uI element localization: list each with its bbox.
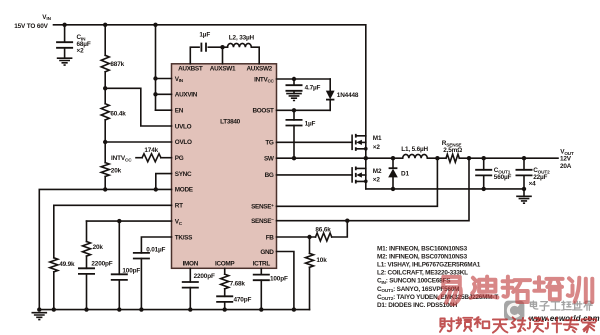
svg-text:7.68k: 7.68k	[230, 281, 246, 288]
svg-text:TK/SS: TK/SS	[175, 234, 193, 241]
wire: 887k to 60.4k (UVLO tap)	[104, 72, 106, 104]
svg-text:560µF: 560µF	[494, 174, 512, 181]
svg-text:LT3840: LT3840	[220, 119, 240, 126]
svg-text:IMON: IMON	[183, 261, 199, 268]
node: M1 source-body tie	[364, 147, 368, 151]
wire: IMON pin down	[189, 268, 191, 282]
svg-text:×4: ×4	[529, 180, 537, 187]
wire: to EN pin	[156, 109, 172, 111]
wire: COUT2 to return rail	[523, 175, 525, 189]
svg-text:BOOST: BOOST	[252, 108, 274, 115]
node: ground rail junction at 49.9k	[52, 307, 56, 311]
svg-text:100pF: 100pF	[270, 276, 288, 283]
wire: UVLO tap to UVLO pin	[105, 88, 171, 126]
wire: VIN top rail to M1 drain	[54, 25, 366, 136]
node: UVLO tap junction	[103, 86, 107, 90]
node: VC line junction to 100pF	[117, 219, 121, 223]
svg-text:CIN: SUNCON 100CE68FS: CIN: SUNCON 100CE68FS	[377, 278, 451, 285]
wire: 100pF to ground rail	[118, 280, 120, 310]
wire: INTVCC pin line	[277, 78, 331, 80]
wire: output rail to COUT2	[523, 158, 525, 170]
svg-text:12V: 12V	[560, 156, 572, 163]
svg-text:AUXSW1: AUXSW1	[210, 66, 236, 73]
wire: VIN rail to R 887k	[104, 25, 106, 56]
wire: 49.9k to ground rail	[53, 272, 55, 310]
resistor 10k	[306, 253, 314, 267]
capacitor 1uF AUXBST (horizontal)	[201, 43, 206, 52]
ground at output	[516, 196, 532, 203]
ground at CIN	[57, 58, 73, 65]
wire: ICTRL cap to ground rail	[260, 280, 262, 309]
node: M2 source-body tie	[364, 180, 368, 184]
wire: ICOMP pin down	[224, 268, 226, 274]
wire: 10k to ground rail	[309, 267, 311, 309]
inductor L1 5.6uH	[403, 154, 428, 158]
node: divider bottom on MODE line	[103, 187, 107, 191]
wire: M2 source to return rail	[365, 181, 367, 189]
capacitor COUT2 22uF x4	[516, 170, 533, 176]
resistor 49.9k	[50, 258, 58, 272]
ground at 4.7uF	[286, 94, 302, 101]
svg-text:2.5mΩ: 2.5mΩ	[443, 147, 462, 154]
svg-text:ICOMP: ICOMP	[215, 261, 235, 268]
wire: 86.6k to SENSE- line	[332, 221, 348, 237]
resistor 7.68k	[221, 274, 229, 289]
svg-text:AUXSW2: AUXSW2	[246, 66, 272, 73]
svg-text:15V TO 60V: 15V TO 60V	[14, 23, 48, 30]
wire: FB junction to 10k	[309, 237, 311, 253]
svg-text:PG: PG	[175, 155, 184, 162]
wire: VIN rail down to EN level	[155, 25, 157, 110]
wire: VC line to 20k comp	[86, 221, 88, 241]
ground symbol main rail	[32, 313, 48, 320]
wire: GND pin to ground rail	[277, 252, 294, 310]
node: SENSE- tap on output rail	[467, 156, 471, 160]
capacitor COUT1 560uF	[475, 170, 492, 176]
svg-text:0.01µF: 0.01µF	[146, 247, 165, 254]
wire: SENSE+ to L1/RSENSE junction	[277, 158, 438, 206]
svg-text:887k: 887k	[110, 61, 124, 68]
svg-text:FB: FB	[266, 234, 275, 241]
resistor 174k	[142, 154, 161, 162]
svg-text:100pF: 100pF	[122, 268, 140, 275]
node: OVLO tap junction	[103, 140, 107, 144]
node: ground rail junction at GND pin	[292, 307, 296, 311]
svg-text:1µF: 1µF	[199, 31, 210, 38]
svg-text:60.4k: 60.4k	[110, 110, 126, 117]
wire: SW rail to M2 drain	[365, 158, 367, 168]
resistor 20k compensation	[83, 242, 91, 257]
wire: IMON cap to ground rail	[189, 288, 191, 310]
svg-text:20k: 20k	[111, 167, 122, 174]
svg-text:L1: VISHAY, IHLP6767GZER5R6MA1: L1: VISHAY, IHLP6767GZER5R6MA1	[377, 262, 481, 269]
svg-text:1µF: 1µF	[305, 120, 316, 127]
svg-text:AUXBST: AUXBST	[178, 66, 203, 73]
wire: VC line to 100pF	[118, 221, 120, 274]
node: divider junction on VIN rail	[103, 23, 107, 27]
wire: to AUXVIN pin	[156, 93, 172, 95]
svg-text:BG: BG	[265, 172, 274, 179]
svg-text:GND: GND	[260, 249, 274, 256]
capacitor 2200pF compensation	[78, 268, 95, 274]
svg-text:M1: M1	[373, 135, 382, 142]
capacitor 4.7uF INTVCC	[286, 85, 303, 91]
wire: 0.01uF to ground rail	[140, 259, 142, 310]
wire: VC pin line	[87, 220, 172, 222]
svg-text:20k: 20k	[93, 244, 104, 251]
node: ground rail junction at 0.01uF	[139, 307, 143, 311]
wire: SYNC pin to MODE line	[156, 174, 172, 190]
wire: MODE pin to ground rail	[39, 189, 171, 309]
wire: 2200pF to ground rail	[86, 274, 88, 310]
svg-text:M2: INFINEON, BSC070N10NS3: M2: INFINEON, BSC070N10NS3	[377, 254, 468, 261]
wire: power return rail (M2/D1 to output caps)	[366, 188, 524, 190]
wire: 174k to PG pin	[161, 157, 172, 159]
watermark red text big: yidituo peixun	[439, 277, 592, 305]
svg-text:×2: ×2	[373, 144, 381, 151]
transistor M1 NMOS x2	[351, 135, 353, 149]
svg-text:1N4448: 1N4448	[337, 92, 359, 99]
svg-text:L1, 5.6µH: L1, 5.6µH	[401, 146, 428, 153]
node: COUT2 on return rail	[522, 187, 526, 191]
capacitor CIN 68uF x2	[56, 42, 73, 48]
wire: INTVCC to 4.7uF	[293, 79, 295, 85]
svg-text:×2: ×2	[373, 176, 381, 183]
inductor L2 33uH	[228, 43, 252, 47]
svg-text:174k: 174k	[144, 147, 158, 154]
wire: BOOST pin line	[277, 109, 331, 111]
resistor 20k divider bottom	[101, 163, 109, 177]
svg-text:SYNC: SYNC	[175, 171, 192, 178]
svg-text:UVLO: UVLO	[175, 123, 192, 130]
resistor 887k	[101, 55, 109, 72]
node: COUT1 on output rail	[482, 156, 486, 160]
watermark gray text: dianzi gongcheng shijie	[530, 301, 592, 311]
wire: 20k to 2200pF	[86, 256, 88, 268]
node: AUXVIN pin junction	[153, 92, 157, 96]
wire: L2 to AUXSW2 pin	[251, 47, 259, 64]
wire: output rail to VOUT	[459, 157, 558, 159]
svg-text:2200pF: 2200pF	[91, 261, 112, 268]
node: D1 anode on return rail	[391, 187, 395, 191]
wire: SW rail from SW pin to L1	[277, 157, 403, 159]
wire: L1 to RSENSE	[427, 157, 446, 159]
wire: 1uF to AUXSW1 junction	[208, 46, 227, 48]
svg-text:AUXVIN: AUXVIN	[175, 92, 198, 99]
node: ground rail junction at ICTRL 100pF	[259, 307, 263, 311]
svg-text:RT: RT	[175, 203, 183, 210]
wire: 7.68k to 470pF	[224, 289, 226, 297]
svg-text:EN: EN	[175, 108, 184, 115]
wire: 470pF to ground rail	[224, 302, 226, 310]
capacitor 0.01uF soft-start	[133, 253, 150, 259]
node: M1 source / M2 drain on SW rail	[364, 156, 368, 160]
svg-text:470pF: 470pF	[234, 296, 252, 303]
node: D1 cathode on SW rail	[391, 156, 395, 160]
node: COUT2 on output rail	[522, 156, 526, 160]
wire: BG pin to M2 gate	[277, 174, 353, 176]
wire: 20k to MODE/ground line	[104, 177, 106, 190]
svg-text:49.9k: 49.9k	[59, 261, 75, 268]
capacitor 470pF	[216, 296, 233, 302]
svg-text:M2: M2	[373, 168, 382, 175]
op-amp U1 LT3840 controller IC body	[172, 64, 277, 268]
capacitor 100pF VC	[111, 274, 128, 280]
node: VIN-pin column junction on VIN rail	[153, 23, 157, 27]
svg-text:SENSE−: SENSE−	[251, 217, 274, 225]
wire: VIN rail to CIN	[64, 25, 66, 42]
svg-text:MODE: MODE	[175, 187, 194, 194]
resistor 60.4k	[101, 104, 109, 120]
node: L1/RSENSE junction (SENSE+ tap)	[435, 156, 439, 160]
node: FB junction	[307, 235, 311, 239]
wire: TK/SS pin to 0.01uF	[141, 237, 171, 253]
transistor M2 NMOS x2	[351, 168, 353, 182]
wire: AUXBST pin up to 1uF cap	[190, 47, 199, 64]
wire: INTVCC label to 174k	[136, 157, 142, 159]
wire: FB pin to 86.6k	[277, 236, 316, 238]
resistor 86.6k	[316, 233, 332, 241]
capacitor 2200pF IMON	[182, 282, 199, 288]
node: INTVCC junction 4.7uF	[292, 77, 296, 81]
wire: OVLO tap to OVLO pin	[105, 141, 171, 143]
node: CIN junction on VIN rail	[62, 23, 66, 27]
svg-text:SW: SW	[264, 156, 275, 163]
wire: to VIN pin	[156, 78, 172, 80]
svg-text:ICTRL: ICTRL	[253, 261, 271, 268]
diode 1N4448 boost	[329, 79, 331, 91]
node: BOOST junction 1uF	[292, 108, 296, 112]
node: COUT1 on return rail	[482, 187, 486, 191]
node: VIN pin junction	[153, 76, 157, 80]
node: ground rail junction at IMON 2200pF	[188, 307, 192, 311]
wire: 60.4k to 20k (OVLO tap)	[104, 120, 106, 163]
capacitor 1uF bootstrap	[286, 120, 303, 126]
wire: 4.7uF to ground	[293, 91, 295, 94]
watermark: eeworld gray logo	[504, 301, 524, 321]
svg-text:M1: INFINEON, BSC160N10NS3: M1: INFINEON, BSC160N10NS3	[377, 245, 468, 252]
capacitor 100pF ICTRL	[253, 275, 270, 281]
svg-text:OVLO: OVLO	[175, 139, 192, 146]
wire: return rail to ground	[523, 189, 525, 196]
node: AUXSW1 junction	[220, 45, 224, 49]
svg-text:×2: ×2	[77, 48, 85, 55]
svg-text:L2, 33µH: L2, 33µH	[229, 34, 255, 41]
wire: 1uF to SW rail	[293, 126, 295, 159]
watermark red text small: shepin he tianxian sheji zhuanjia	[440, 317, 596, 333]
wire: TG pin to M1 gate	[277, 141, 353, 143]
wire: M1 source to SW rail	[365, 149, 367, 159]
node: ground rail junction at 100pF	[117, 307, 121, 311]
wire: CIN to ground	[64, 48, 66, 58]
svg-text:4.7µF: 4.7µF	[305, 84, 321, 91]
node: SYNC-MODE junction	[154, 187, 158, 191]
diode D1 freewheeling	[392, 158, 394, 168]
wire: RT pin to 49.9k	[54, 205, 172, 257]
wire: AUXSW1 pin drop	[222, 47, 224, 64]
svg-text:SENSE+: SENSE+	[251, 203, 274, 211]
svg-text:2200pF: 2200pF	[194, 273, 215, 280]
wire: BOOST to 1uF bootstrap	[293, 110, 295, 120]
node: ground rail junction at rail left end	[37, 307, 41, 311]
resistor RSENSE 2.5mOhm	[446, 154, 459, 162]
wire: COUT1 to return rail	[483, 175, 485, 189]
svg-text:D1: D1	[401, 170, 409, 177]
svg-text:TG: TG	[265, 140, 274, 147]
node: bootstrap cap on SW rail	[292, 156, 296, 160]
svg-text:86.6k: 86.6k	[315, 227, 331, 234]
node: ground rail junction at 470pF	[223, 307, 227, 311]
wire: output rail to COUT1	[483, 158, 485, 170]
node: 86.6k top on SENSE- line	[345, 219, 349, 223]
node: ground rail junction at 2200pF	[84, 307, 88, 311]
svg-text:10k: 10k	[316, 257, 327, 264]
svg-text:20A: 20A	[560, 163, 572, 170]
wire: bottom ground rail	[39, 309, 309, 311]
wire: ICTRL pin down	[260, 268, 262, 274]
wire: SENSE- to output rail	[277, 158, 470, 221]
